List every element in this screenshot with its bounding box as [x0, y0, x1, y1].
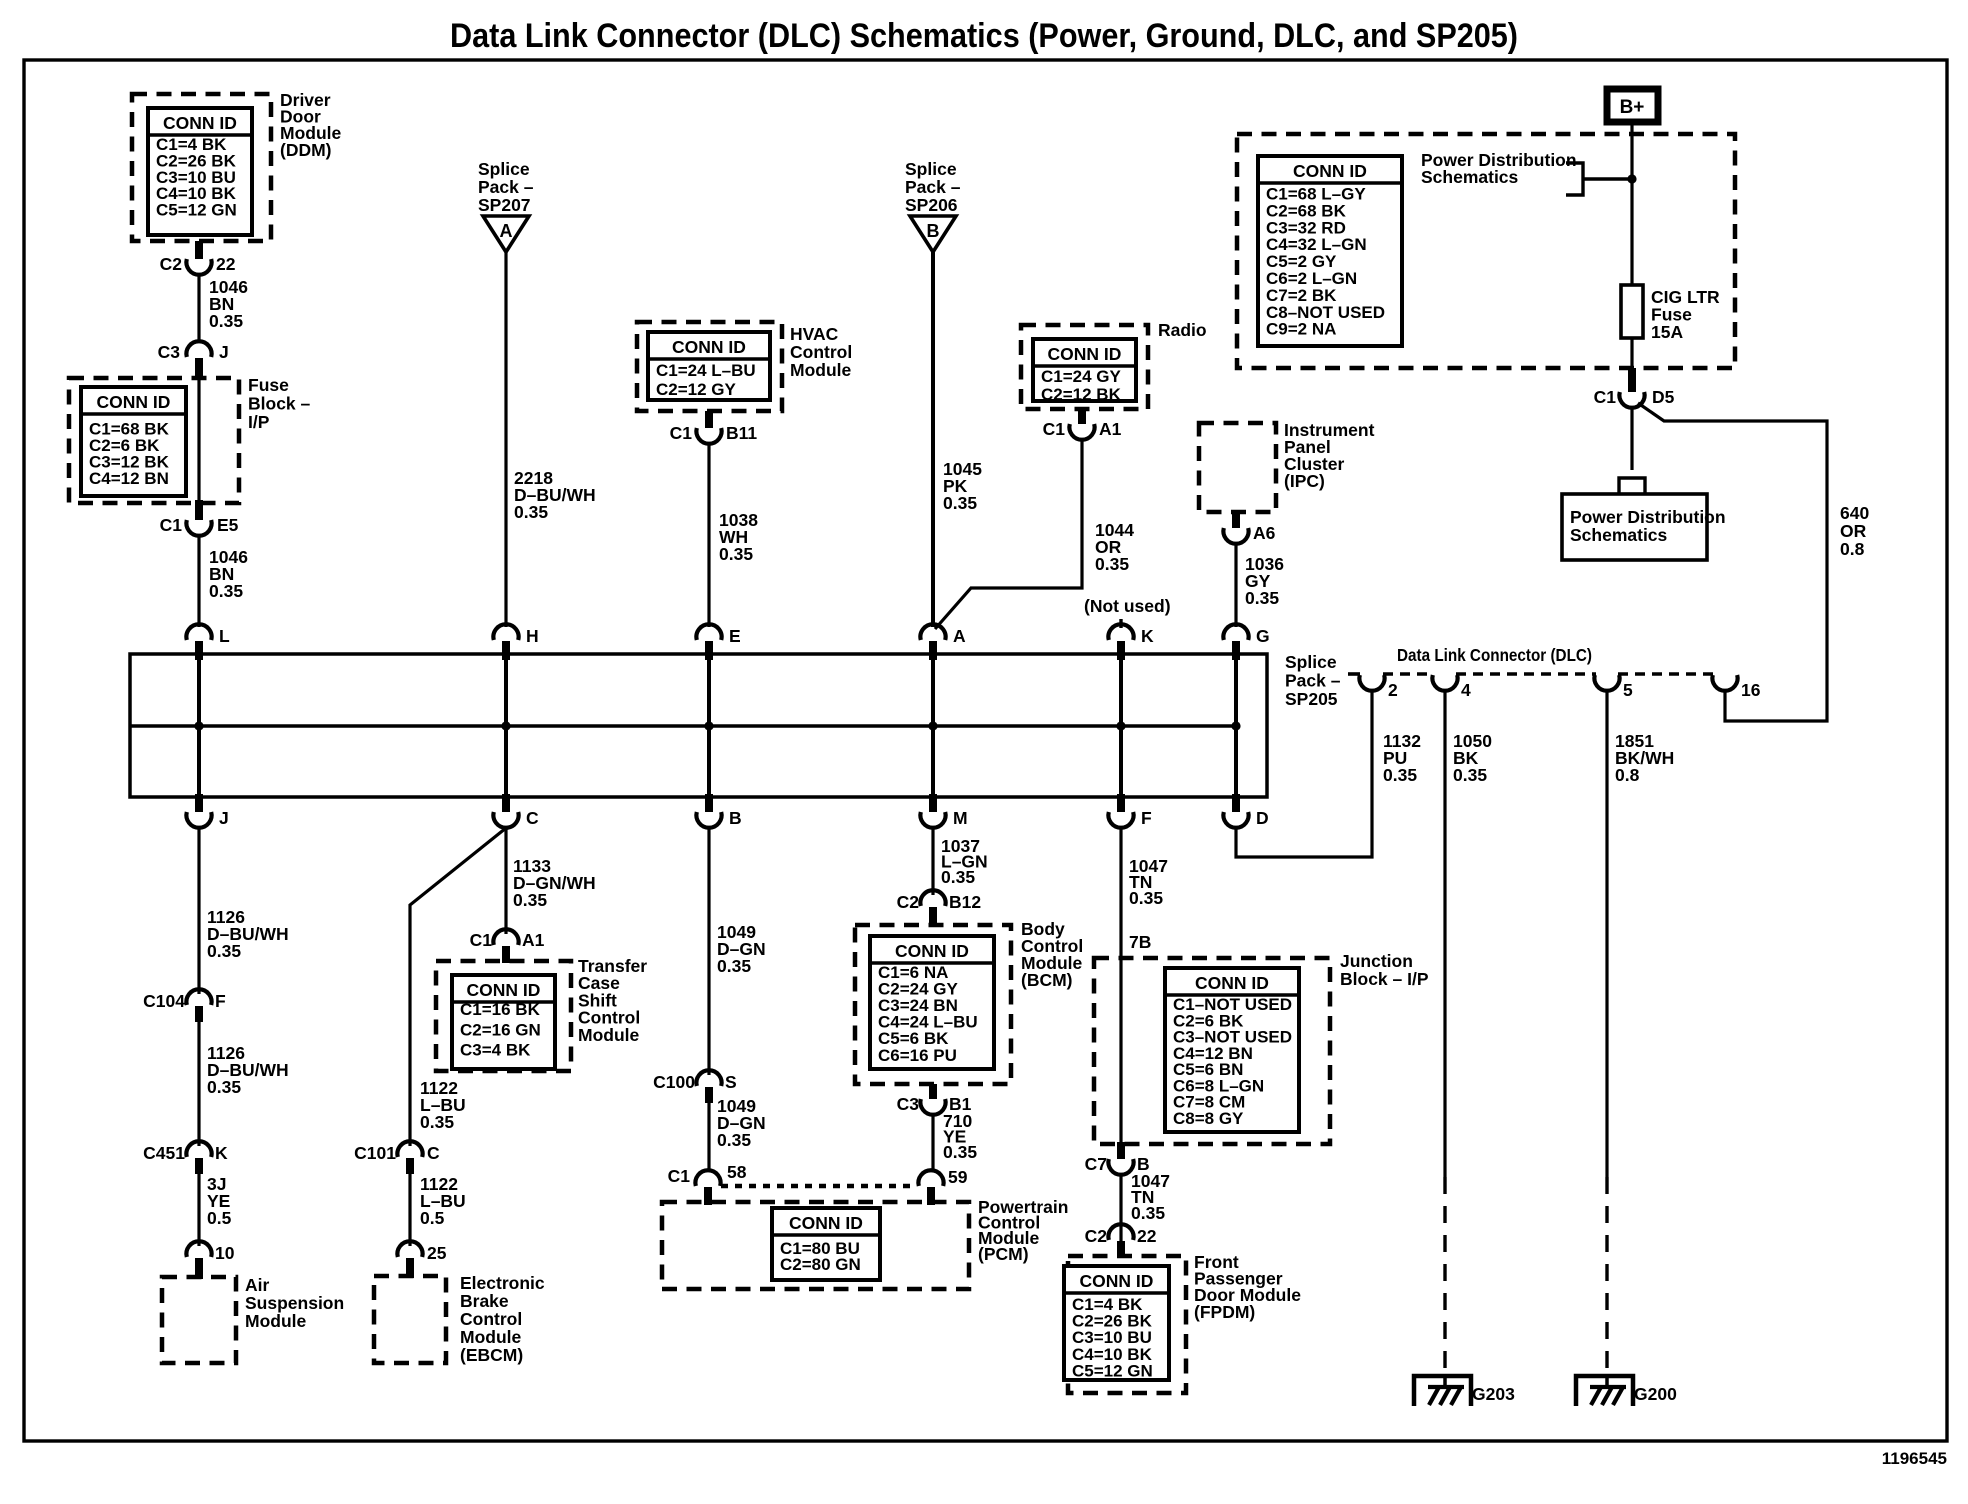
svg-text:Module: Module: [460, 1327, 522, 1347]
svg-text:25: 25: [427, 1243, 447, 1263]
connector C3 pin J (fuse block I/P): [158, 341, 229, 380]
svg-text:Control: Control: [460, 1309, 522, 1329]
svg-text:CONN ID: CONN ID: [163, 113, 237, 133]
svg-text:G200: G200: [1634, 1384, 1677, 1404]
battery feed B+ symbol: [1607, 89, 1658, 122]
dashed wire to G200: [1605, 1177, 1608, 1374]
svg-text:C1=24 GY: C1=24 GY: [1041, 367, 1122, 386]
svg-text:B11: B11: [726, 423, 757, 443]
svg-text:C1: C1: [670, 423, 693, 443]
svg-text:C1: C1: [1043, 419, 1066, 439]
svg-text:CONN ID: CONN ID: [1080, 1271, 1154, 1291]
svg-text:C1: C1: [1594, 387, 1617, 407]
svg-text:0.35: 0.35: [1129, 888, 1163, 908]
wire 1045 PK 0.35 (SP206 to bus A): [931, 252, 935, 627]
splice pack SP206 triangle B: [910, 216, 956, 252]
svg-text:A: A: [500, 221, 513, 241]
wire 1049 D-GN 0.35 (bus B to C100): [707, 828, 710, 1075]
svg-text:C101: C101: [354, 1143, 396, 1163]
svg-text:0.35: 0.35: [1131, 1203, 1165, 1223]
Radio CONN ID table: [1033, 339, 1136, 404]
svg-text:A: A: [953, 626, 966, 646]
svg-text:C2=80 GN: C2=80 GN: [780, 1255, 861, 1274]
svg-text:C: C: [427, 1143, 440, 1163]
connector C2 pin 22 (FPDM): [1085, 1224, 1157, 1258]
svg-text:7B: 7B: [1129, 932, 1151, 952]
svg-text:CONN ID: CONN ID: [1048, 344, 1122, 364]
svg-text:Brake: Brake: [460, 1291, 509, 1311]
svg-text:Data Link Connector (DLC): Data Link Connector (DLC): [1397, 645, 1592, 665]
wire DLC pin 5 to ground G200: [1605, 692, 1608, 1177]
bus vertical conductor L: [197, 654, 201, 797]
module Front Passenger Door Module dashed box: [1068, 1256, 1186, 1393]
bus terminal L: [186, 624, 230, 660]
bus terminal K: [1108, 624, 1154, 660]
svg-text:0.35: 0.35: [513, 890, 547, 910]
svg-text:D: D: [1256, 808, 1269, 828]
connector C1 pin B11 (HVAC): [670, 411, 758, 444]
svg-text:C1: C1: [470, 930, 493, 950]
svg-text:0.35: 0.35: [1383, 765, 1417, 785]
svg-text:I/P: I/P: [248, 412, 270, 432]
svg-text:Power Distribution: Power Distribution: [1570, 507, 1726, 527]
bus junction node l199: [194, 721, 203, 730]
Fuse Block Underhood CONN ID table: [1258, 156, 1402, 346]
svg-text:C100: C100: [653, 1072, 695, 1092]
svg-text:B: B: [927, 221, 940, 241]
svg-text:(Not used): (Not used): [1084, 596, 1171, 616]
wire 1046 BN 0.35 (C2 to C3): [197, 275, 200, 342]
bus vertical conductor E: [707, 654, 711, 797]
svg-text:C451: C451: [143, 1143, 185, 1163]
svg-text:Splice: Splice: [478, 159, 530, 179]
svg-text:C1: C1: [160, 515, 183, 535]
module Radio dashed box: [1021, 325, 1148, 409]
module Fuse Block - Underhood dashed box: [1237, 134, 1735, 368]
DLC pin 4: [1432, 675, 1471, 700]
svg-text:SP207: SP207: [478, 195, 531, 215]
svg-text:58: 58: [727, 1162, 747, 1182]
wire 1047 TN 0.35 (bus F to junction block): [1119, 828, 1122, 958]
module Powertrain Control Module dashed box: [662, 1202, 969, 1289]
BCM CONN ID table: [870, 936, 994, 1069]
svg-text:CONN ID: CONN ID: [789, 1213, 863, 1233]
svg-text:D5: D5: [1652, 387, 1675, 407]
svg-text:22: 22: [1137, 1226, 1157, 1246]
svg-text:(PCM): (PCM): [978, 1244, 1029, 1264]
bus terminal F: [1108, 794, 1152, 828]
ground G203: [1414, 1374, 1515, 1406]
wire B+ to fuse: [1630, 125, 1633, 287]
splice pack SP205 bus center conductor: [130, 724, 1236, 728]
DLC pin 2: [1359, 675, 1398, 700]
DLC dashed outline: [1348, 672, 1714, 676]
svg-text:Electronic: Electronic: [460, 1273, 545, 1293]
splice pack SP207 triangle A: [483, 216, 529, 252]
svg-text:Schematics: Schematics: [1421, 167, 1519, 187]
svg-text:59: 59: [948, 1167, 968, 1187]
svg-text:Block –: Block –: [248, 394, 311, 414]
svg-text:F: F: [215, 991, 226, 1011]
svg-text:Pack –: Pack –: [905, 177, 961, 197]
module Junction Block - I/P dashed box: [1094, 958, 1330, 1144]
DDM CONN ID table: [148, 108, 252, 235]
svg-text:C6=16 PU: C6=16 PU: [878, 1046, 957, 1065]
svg-text:S: S: [725, 1072, 737, 1092]
stub above terminal K: [1119, 619, 1122, 628]
wire 1037 L-GN 0.35 (bus M to C2/B12): [931, 828, 934, 895]
wire 1047 TN 0.35 (C7 to FPDM): [1119, 1175, 1122, 1246]
svg-text:H: H: [526, 626, 539, 646]
bus vertical conductor K: [1119, 654, 1123, 797]
wire 1122 L-BU 0.5 (C101 to EBCM): [408, 1174, 411, 1246]
svg-text:Module: Module: [790, 360, 852, 380]
svg-text:C1: C1: [668, 1166, 691, 1186]
bus terminal E: [696, 624, 740, 660]
Power Distribution Schematics bracket symbol: [1566, 163, 1632, 195]
svg-text:0.8: 0.8: [1615, 765, 1640, 785]
svg-text:K: K: [215, 1143, 228, 1163]
svg-text:640: 640: [1840, 503, 1869, 523]
wire 3J YE 0.5 (C451 to Air Suspension): [197, 1174, 200, 1246]
svg-text:C7: C7: [1085, 1154, 1107, 1174]
svg-text:SP205: SP205: [1285, 689, 1338, 709]
DLC pin 5: [1594, 675, 1633, 700]
svg-text:C5=12 GN: C5=12 GN: [1072, 1361, 1153, 1380]
module HVAC Control Module dashed box: [637, 322, 782, 411]
svg-text:0.35: 0.35: [1095, 554, 1129, 574]
DLC pin 16: [1712, 675, 1760, 700]
svg-text:0.35: 0.35: [207, 941, 241, 961]
svg-text:C2: C2: [160, 254, 183, 274]
wire 1133 D-GN/WH 0.35 (bus C to C1/A1): [504, 828, 507, 934]
wire 1126 D-BU/WH 0.35 (C104 to C451): [197, 1022, 200, 1146]
svg-text:A1: A1: [1099, 419, 1122, 439]
svg-text:C3=4 BK: C3=4 BK: [460, 1041, 531, 1060]
svg-text:C8=8 GY: C8=8 GY: [1173, 1109, 1244, 1128]
svg-text:0.35: 0.35: [717, 1130, 751, 1150]
connector C1 pin A1 (Radio): [1043, 409, 1122, 440]
svg-text:C104: C104: [143, 991, 185, 1011]
module Air Suspension Module dashed box: [162, 1277, 236, 1363]
module Driver Door Module (DDM) dashed box: [132, 94, 271, 241]
svg-text:Schematics: Schematics: [1570, 525, 1668, 545]
svg-text:K: K: [1141, 626, 1154, 646]
svg-text:22: 22: [216, 254, 236, 274]
svg-text:0.35: 0.35: [941, 867, 975, 887]
svg-text:C3: C3: [158, 342, 181, 362]
svg-text:0.8: 0.8: [1840, 539, 1865, 559]
bus terminal B: [696, 794, 741, 828]
svg-text:A6: A6: [1253, 523, 1276, 543]
svg-text:C5=12 GN: C5=12 GN: [156, 201, 237, 220]
wire 710 YE 0.35 (B1 to PCM pin 59): [931, 1115, 934, 1170]
bus terminal H: [493, 624, 538, 660]
HVAC CONN ID table: [648, 332, 770, 400]
svg-text:Air: Air: [245, 1275, 270, 1295]
svg-text:0.35: 0.35: [717, 956, 751, 976]
bus vertical conductor H: [504, 654, 508, 797]
svg-text:0.35: 0.35: [719, 544, 753, 564]
svg-text:Module: Module: [245, 1311, 307, 1331]
svg-text:C3: C3: [897, 1094, 920, 1114]
svg-text:0.35: 0.35: [943, 1142, 977, 1162]
wire 1044 OR 0.35 (A1 to bus A): [935, 440, 1082, 629]
svg-text:HVAC: HVAC: [790, 324, 839, 344]
svg-text:Control: Control: [790, 342, 852, 362]
bus terminal D: [1223, 794, 1268, 828]
module Electronic Brake Control Module dashed box: [374, 1276, 446, 1363]
svg-text:F: F: [1141, 808, 1152, 828]
bus junction node g1236: [1231, 721, 1240, 730]
module Transfer Case Shift Control Module dashed box: [436, 961, 571, 1071]
svg-text:0.35: 0.35: [1245, 588, 1279, 608]
svg-text:J: J: [219, 808, 229, 828]
bus terminal A: [920, 624, 966, 660]
svg-text:SP206: SP206: [905, 195, 958, 215]
svg-text:CONN ID: CONN ID: [895, 941, 969, 961]
Junction Block CONN ID table: [1165, 968, 1299, 1132]
svg-text:G: G: [1256, 626, 1270, 646]
svg-text:(EBCM): (EBCM): [460, 1345, 523, 1365]
ground G200: [1576, 1374, 1677, 1406]
connector C451 pin K: [143, 1141, 228, 1174]
wire 1038 WH 0.35 (B11 to bus E): [707, 444, 710, 627]
connector C1 pin E5 (fuse block I/P): [160, 500, 239, 536]
svg-text:1196545: 1196545: [1882, 1449, 1947, 1468]
svg-text:0.35: 0.35: [514, 502, 548, 522]
wire 1122 L-BU 0.35 (bus C to C101): [410, 828, 506, 1146]
svg-text:Suspension: Suspension: [245, 1293, 344, 1313]
wire 640 OR 0.8 (D5 to DLC pin 16): [1638, 403, 1827, 721]
wire 1036 GY 0.35 (A6 to bus G): [1234, 544, 1237, 627]
svg-text:16: 16: [1741, 680, 1761, 700]
svg-text:10: 10: [215, 1243, 235, 1263]
svg-text:0.35: 0.35: [209, 581, 243, 601]
svg-text:A1: A1: [522, 930, 545, 950]
bus vertical conductor G: [1234, 654, 1238, 797]
svg-text:C2=16 GN: C2=16 GN: [460, 1020, 541, 1039]
bus junction node e709: [704, 721, 713, 730]
svg-text:Splice: Splice: [1285, 652, 1337, 672]
Fuse Block I/P CONN ID table: [81, 387, 186, 496]
wire through junction block: [1119, 958, 1122, 1142]
connector C100 pin S: [653, 1070, 737, 1103]
svg-text:C4=12 BN: C4=12 BN: [89, 469, 169, 488]
svg-text:C1=16 BK: C1=16 BK: [460, 1000, 541, 1019]
svg-text:Junction: Junction: [1340, 951, 1413, 971]
connector C1 pin D5 (fuse block underhood): [1594, 368, 1675, 408]
FPDM CONN ID table: [1064, 1266, 1169, 1380]
connector C101 pin C: [354, 1141, 440, 1174]
svg-text:CONN ID: CONN ID: [97, 392, 171, 412]
wire through Fuse Block I/P: [197, 380, 200, 500]
svg-text:(DDM): (DDM): [280, 140, 332, 160]
svg-text:CONN ID: CONN ID: [672, 337, 746, 357]
module Body Control Module dashed box: [855, 925, 1011, 1084]
svg-text:CONN ID: CONN ID: [1293, 161, 1367, 181]
svg-text:C2: C2: [897, 892, 920, 912]
connector pin A6 (IPC): [1223, 512, 1275, 544]
svg-text:L: L: [219, 626, 230, 646]
svg-text:Pack –: Pack –: [1285, 671, 1341, 691]
wire 2218 D-BU/WH 0.35 (SP207 to bus H): [504, 252, 507, 627]
dashed wire to G203: [1443, 1177, 1446, 1374]
wire C1/D5 to Power Distribution Schematics box: [1630, 408, 1633, 470]
bus junction node h506: [501, 721, 510, 730]
svg-text:C: C: [526, 808, 539, 828]
svg-text:15A: 15A: [1651, 322, 1683, 342]
bus junction node k1121: [1116, 721, 1125, 730]
svg-text:0.5: 0.5: [207, 1208, 232, 1228]
connector C3 pin B1 (BCM): [897, 1084, 972, 1115]
svg-text:C2: C2: [1085, 1226, 1108, 1246]
junction node on B+ feed: [1627, 174, 1636, 183]
svg-text:Pack –: Pack –: [478, 177, 534, 197]
module Instrument Panel Cluster dashed box: [1199, 423, 1276, 512]
splice pack SP205 bus box: [130, 654, 1267, 797]
svg-text:E5: E5: [217, 515, 239, 535]
fork into Power Distribution Schematics box: [1619, 478, 1645, 494]
connector C7 pin B (junction block): [1085, 1142, 1150, 1175]
svg-text:0.5: 0.5: [420, 1208, 445, 1228]
svg-text:(IPC): (IPC): [1284, 471, 1325, 491]
connector C1 pin A1 (transfer case): [470, 929, 545, 963]
svg-text:(FPDM): (FPDM): [1194, 1302, 1255, 1322]
svg-text:0.35: 0.35: [943, 493, 977, 513]
Power Distribution Schematics destination box: [1562, 494, 1726, 560]
svg-text:Radio: Radio: [1158, 320, 1207, 340]
svg-text:C2=12 BK: C2=12 BK: [1041, 385, 1122, 404]
connector C104 pin F: [143, 989, 226, 1022]
bus terminal C: [493, 794, 539, 828]
wire 1126 D-BU/WH 0.35 (bus J to C104): [197, 828, 200, 994]
svg-text:Fuse: Fuse: [248, 375, 289, 395]
svg-text:B: B: [729, 808, 742, 828]
svg-text:C9=2 NA: C9=2 NA: [1266, 320, 1336, 339]
bus terminal G: [1223, 624, 1269, 660]
svg-text:Block – I/P: Block – I/P: [1340, 969, 1429, 989]
svg-text:0.35: 0.35: [1453, 765, 1487, 785]
svg-text:Module: Module: [578, 1025, 640, 1045]
wire 1049 D-GN 0.35 (C100 to PCM pin 58): [707, 1103, 710, 1170]
svg-text:C1=24 L–BU: C1=24 L–BU: [656, 361, 756, 380]
dotted connector face line (PCM C1): [721, 1184, 916, 1189]
Transfer Case CONN ID table: [452, 975, 555, 1069]
wire DLC pin 4 to ground G203: [1443, 692, 1446, 1177]
svg-text:B12: B12: [949, 892, 981, 912]
fuse CIG LTR 15A: [1621, 285, 1643, 338]
svg-text:M: M: [953, 808, 968, 828]
connector C2 pin B12 (BCM): [897, 890, 982, 926]
module Fuse Block - I/P dashed box: [69, 378, 239, 503]
svg-text:0.35: 0.35: [209, 311, 243, 331]
svg-text:C2=12 GY: C2=12 GY: [656, 380, 737, 399]
svg-text:G203: G203: [1472, 1384, 1515, 1404]
wire bus D to DLC pin 2: [1236, 692, 1372, 857]
svg-text:CONN ID: CONN ID: [467, 980, 541, 1000]
bus terminal M: [920, 794, 967, 828]
wire fuse to C1/D5: [1630, 338, 1633, 372]
svg-text:Data Link Connector (DLC) Sche: Data Link Connector (DLC) Schematics (Po…: [450, 17, 1518, 55]
bus vertical conductor A: [931, 654, 935, 797]
svg-text:Splice: Splice: [905, 159, 957, 179]
svg-text:(BCM): (BCM): [1021, 970, 1073, 990]
svg-text:OR: OR: [1840, 521, 1867, 541]
svg-text:0.35: 0.35: [207, 1077, 241, 1097]
connector pin 10 (Air Suspension Module): [186, 1241, 234, 1279]
svg-text:J: J: [219, 342, 229, 362]
svg-text:0.35: 0.35: [420, 1112, 454, 1132]
connector C1 pin 58 (PCM): [668, 1162, 747, 1205]
svg-text:E: E: [729, 626, 741, 646]
svg-text:CONN ID: CONN ID: [1195, 973, 1269, 993]
svg-text:5: 5: [1623, 680, 1633, 700]
wire 1046 BN 0.35 (E5 to bus L): [197, 536, 200, 627]
svg-text:4: 4: [1461, 680, 1471, 700]
connector pin 59 (PCM): [918, 1167, 967, 1205]
bus junction node a933: [928, 721, 937, 730]
svg-text:2: 2: [1388, 680, 1398, 700]
PCM CONN ID table: [772, 1208, 880, 1280]
bus terminal J: [186, 794, 228, 828]
svg-text:B+: B+: [1620, 97, 1645, 118]
connector pin 25 (EBCM): [397, 1241, 446, 1278]
connector C2 pin 22 (DDM): [160, 241, 236, 275]
